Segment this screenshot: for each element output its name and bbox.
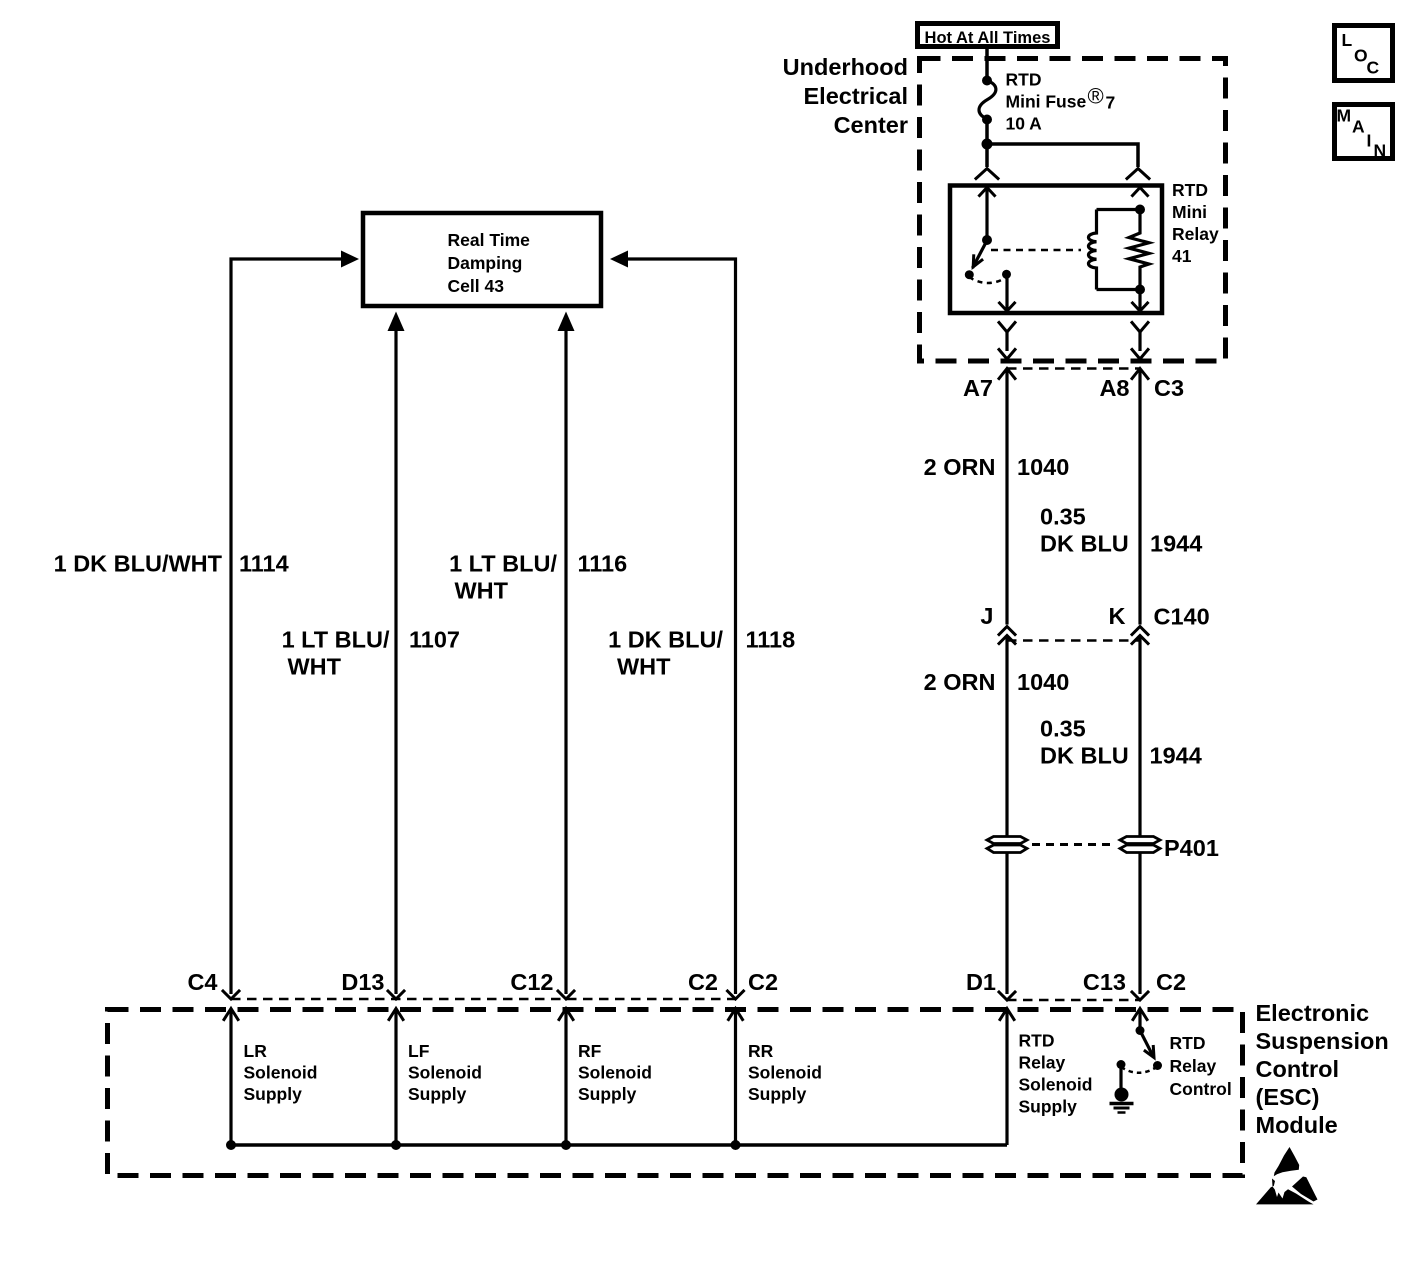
ESC entry arrow D1 riser [1000, 1009, 1014, 1146]
wire A8/C3 to K [1138, 369, 1141, 625]
wire fuse to junction [985, 120, 989, 145]
pass-through grommet P401 left [987, 837, 1027, 853]
ESC entry arrow RF [559, 1009, 573, 1146]
wire label 1 LT BLU/WHT 1116 [449, 551, 627, 604]
relay actuation dashed link line [991, 249, 1081, 252]
svg-text:41: 41 [1172, 246, 1192, 266]
svg-text:C2: C2 [748, 969, 778, 995]
wire to ground [1119, 1065, 1122, 1089]
relay U1 box: RTD Mini Relay 41 [950, 186, 1162, 314]
ESC entry arrow LR [224, 1009, 238, 1146]
relay output left terminal chevron pair [999, 323, 1015, 360]
pass-through grommet P401 right [1120, 837, 1160, 853]
svg-text:LR: LR [244, 1041, 268, 1061]
svg-text:7: 7 [1106, 93, 1116, 113]
svg-text:DK BLU: DK BLU [1040, 743, 1129, 769]
wire junction horizontal to relay right pin [987, 144, 1138, 167]
ground symbol G401 [1110, 1088, 1134, 1113]
fuse label RTD Mini Fuse (R) 7 10 A [1006, 70, 1116, 134]
svg-text:10 A: 10 A [1006, 114, 1043, 134]
label Electronic Suspension Control (ESC) Module [1256, 1000, 1389, 1138]
bus junction dot RF [561, 1140, 571, 1150]
svg-text:WHT: WHT [288, 654, 342, 680]
LOC legend box [1335, 26, 1393, 81]
wire J to P401 [1005, 636, 1008, 837]
svg-text:RTD: RTD [1019, 1031, 1055, 1051]
UEC connector interface dashed line A7-A8 [1007, 367, 1140, 370]
svg-text:A8: A8 [1099, 375, 1129, 401]
wire label 0.35 DK BLU 1944 (upper) [1040, 504, 1202, 557]
wire label 1 DK BLU/WHT 1118 [608, 627, 795, 680]
svg-text:Suspension: Suspension [1256, 1028, 1389, 1054]
svg-text:RTD: RTD [1170, 1033, 1206, 1053]
svg-text:C13: C13 [1083, 969, 1126, 995]
svg-text:Underhood: Underhood [783, 54, 908, 80]
wire RR supply riser to cell box (right arrow) [610, 251, 736, 995]
svg-text:RTD: RTD [1172, 180, 1208, 200]
wire LF supply riser to cell box bottom arrow [388, 312, 405, 995]
svg-text:C12: C12 [510, 969, 553, 995]
svg-text:Cell 43: Cell 43 [448, 276, 505, 296]
svg-text:Real Time: Real Time [448, 230, 531, 250]
label Underhood Electrical Center [783, 54, 908, 138]
connector C140 terminals J and K [999, 627, 1148, 644]
relay pin 85 arrow down (right bottom inside) [1133, 290, 1148, 312]
svg-text:Hot At All Times: Hot At All Times [925, 29, 1051, 47]
ESC switch dashed arc [1121, 1067, 1155, 1073]
relay label RTD Mini Relay 41 [1172, 180, 1219, 266]
wire P401 to C13 [1138, 853, 1141, 995]
fuse F1: RTD Mini Fuse 7 10 A [979, 76, 996, 125]
svg-text:Mini: Mini [1172, 202, 1207, 222]
svg-text:LF: LF [408, 1041, 430, 1061]
P401 dashed link [1032, 843, 1114, 846]
Underhood Electrical Center dashed box [920, 59, 1226, 362]
svg-text:C2: C2 [1156, 969, 1186, 995]
svg-text:Solenoid: Solenoid [1019, 1075, 1093, 1095]
bus junction dot LR [226, 1140, 236, 1150]
svg-text:1944: 1944 [1150, 743, 1202, 769]
svg-text:1040: 1040 [1017, 669, 1069, 695]
svg-text:A7: A7 [963, 375, 993, 401]
svg-text:C140: C140 [1154, 604, 1210, 630]
svg-text:RF: RF [578, 1041, 602, 1061]
ESC entry arrow RR [729, 1009, 743, 1146]
relay switch pivot dot [982, 235, 992, 245]
svg-text:Supply: Supply [408, 1084, 467, 1104]
svg-text:Mini Fuse: Mini Fuse [1006, 92, 1087, 112]
terminal A7 male chevron [999, 369, 1015, 379]
svg-text:1116: 1116 [578, 551, 628, 577]
wire label 0.35 DK BLU 1944 (lower) [1040, 716, 1202, 769]
Hot At All Times box [918, 24, 1058, 48]
bus junction dot RR [731, 1140, 741, 1150]
svg-text:Supply: Supply [1019, 1097, 1078, 1117]
svg-text:0.35: 0.35 [1040, 504, 1086, 530]
junction node dot [982, 139, 993, 150]
ESC connector interface dashed line left [231, 998, 736, 1001]
relay coil L1 [1088, 210, 1096, 290]
wire label 1 DK BLU/WHT 1114 [54, 551, 289, 577]
ESC connector chevron D13 [388, 991, 404, 999]
relay output right terminal chevron pair [1132, 323, 1148, 360]
svg-text:D1: D1 [966, 969, 996, 995]
svg-text:Electrical: Electrical [803, 83, 908, 109]
MAIN legend box [1335, 105, 1393, 161]
svg-text:DK BLU: DK BLU [1040, 531, 1129, 557]
wire from Hot At All Times to fuse [985, 49, 989, 79]
ESC switch contact right dot [1153, 1061, 1162, 1070]
ESC connector chevron C2 [728, 991, 744, 999]
wire A7 to J [1005, 369, 1008, 625]
svg-text:1118: 1118 [746, 627, 796, 653]
relay left input terminal chevron [976, 169, 998, 179]
wire RF supply riser to cell box bottom arrow [558, 312, 575, 995]
svg-text:L: L [1342, 30, 1353, 50]
svg-text:1040: 1040 [1017, 454, 1069, 480]
ESC module dashed box [108, 1010, 1243, 1176]
svg-text:(ESC): (ESC) [1256, 1084, 1320, 1110]
ESC connector chevron C4 [223, 991, 239, 999]
svg-text:Relay: Relay [1172, 224, 1219, 244]
relay right input terminal chevron [1127, 169, 1149, 179]
label LF Solenoid Supply [408, 1041, 482, 1104]
svg-text:Center: Center [834, 112, 908, 138]
ESC entry arrow C13 [1133, 1009, 1147, 1031]
Real Time Damping cell box [363, 213, 601, 306]
coil top rail [1097, 208, 1141, 211]
relay pin 86 arrow up (right inside) [1133, 188, 1148, 196]
relay switch contact dashed arc [969, 277, 1007, 283]
svg-text:P401: P401 [1164, 835, 1219, 861]
ESC connector chevron C12 [558, 991, 574, 999]
bus junction dot LF [391, 1140, 401, 1150]
svg-text:RTD: RTD [1006, 70, 1042, 90]
ESC connector chevron D1 [999, 992, 1015, 1000]
svg-text:Damping: Damping [448, 253, 523, 273]
ESC switch pivot dot [1136, 1026, 1145, 1035]
relay pin 87 arrow down (left bottom inside) [1000, 275, 1015, 312]
label LR Solenoid Supply [244, 1041, 318, 1104]
svg-text:J: J [980, 603, 993, 629]
svg-text:I: I [1367, 131, 1372, 151]
svg-text:WHT: WHT [617, 654, 671, 680]
relay switch contact left dot [965, 270, 974, 279]
label RTD Relay Control [1170, 1033, 1232, 1099]
C140 interface dashed line [1007, 639, 1140, 642]
svg-text:C2: C2 [688, 969, 718, 995]
relay switch contact right dot [1002, 270, 1011, 279]
svg-text:Module: Module [1256, 1112, 1338, 1138]
wire LR supply riser to cell box (left arrow) [231, 251, 359, 995]
relay coil node bottom dot [1135, 285, 1145, 295]
svg-text:K: K [1109, 603, 1126, 629]
ESC connector chevron C13 [1132, 992, 1148, 1000]
svg-text:N: N [1374, 141, 1387, 161]
relay resistor R1 zigzag [1129, 210, 1149, 290]
svg-text:A: A [1352, 117, 1365, 137]
svg-text:Supply: Supply [244, 1084, 303, 1104]
relay coil node top dot [1135, 205, 1145, 215]
ESC switch arm with arrowhead [1140, 1031, 1154, 1058]
svg-text:Supply: Supply [578, 1084, 637, 1104]
svg-text:1 DK BLU/WHT: 1 DK BLU/WHT [54, 551, 223, 577]
svg-text:Solenoid: Solenoid [244, 1063, 318, 1083]
svg-text:Electronic: Electronic [1256, 1000, 1370, 1026]
svg-text:C: C [1367, 58, 1380, 78]
svg-text:Relay: Relay [1019, 1053, 1066, 1073]
svg-text:C4: C4 [187, 969, 217, 995]
svg-text:2 ORN: 2 ORN [924, 454, 996, 480]
svg-text:C3: C3 [1154, 375, 1184, 401]
wire label 1 LT BLU/WHT 1107 [282, 627, 460, 680]
svg-text:RR: RR [748, 1041, 774, 1061]
wire junction to relay left pin [985, 144, 989, 167]
wire P401 to D1 [1005, 853, 1008, 995]
svg-text:0.35: 0.35 [1040, 716, 1086, 742]
svg-text:WHT: WHT [455, 578, 509, 604]
label RR Solenoid Supply [748, 1041, 822, 1104]
svg-text:Supply: Supply [748, 1084, 807, 1104]
svg-text:Control: Control [1170, 1079, 1232, 1099]
svg-text:1 DK BLU/: 1 DK BLU/ [608, 627, 723, 653]
svg-text:Solenoid: Solenoid [748, 1063, 822, 1083]
ESC connector interface dashed D1-C13 [1007, 999, 1140, 1002]
svg-text:®: ® [1088, 84, 1104, 109]
wire label 2 ORN 1040 (lower) [924, 669, 1070, 695]
svg-text:1944: 1944 [1150, 531, 1202, 557]
ESC entry arrow LF [389, 1009, 403, 1146]
svg-text:1107: 1107 [409, 627, 460, 653]
svg-text:1 LT BLU/: 1 LT BLU/ [449, 551, 557, 577]
wire label 2 ORN 1040 (upper) [924, 454, 1070, 480]
svg-text:D13: D13 [341, 969, 384, 995]
ESD sensitive device symbol [1256, 1147, 1318, 1204]
label RTD Relay Solenoid Supply [1019, 1031, 1093, 1117]
terminal A8 male chevron [1132, 369, 1148, 379]
svg-text:Solenoid: Solenoid [408, 1063, 482, 1083]
svg-text:1114: 1114 [239, 551, 289, 577]
svg-text:1 LT BLU/: 1 LT BLU/ [282, 627, 390, 653]
solenoid supply bus [231, 1143, 1007, 1147]
svg-text:Control: Control [1256, 1056, 1340, 1082]
relay pin 30 arrow up (left inside) [980, 188, 995, 241]
ESC switch contact left dot [1117, 1060, 1126, 1069]
wire K to P401 [1138, 636, 1141, 837]
relay switch arm with arrowhead [973, 240, 988, 269]
svg-text:2 ORN: 2 ORN [924, 669, 996, 695]
coil bottom rail [1097, 288, 1141, 291]
label RF Solenoid Supply [578, 1041, 652, 1104]
svg-text:Solenoid: Solenoid [578, 1063, 652, 1083]
svg-text:M: M [1337, 106, 1352, 126]
svg-text:Relay: Relay [1170, 1056, 1217, 1076]
